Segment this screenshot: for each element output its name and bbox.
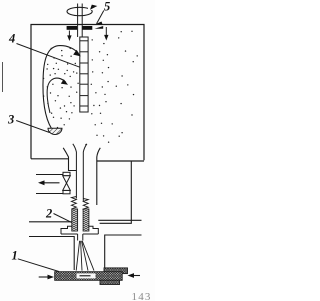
svg-text:3: 3 <box>7 113 14 127</box>
gas arrow left <box>67 31 71 42</box>
circulation arrow outer <box>43 46 78 129</box>
circulation arrow inner <box>47 78 66 113</box>
leader 5 <box>97 11 104 24</box>
chamber vessel walls <box>31 25 144 162</box>
disc arrow right <box>128 273 141 278</box>
svg-text:143: 143 <box>132 291 152 301</box>
disc window dash <box>80 275 91 276</box>
particle dots <box>43 31 138 146</box>
right duct <box>100 161 132 223</box>
svg-text:5: 5 <box>104 0 110 14</box>
leader 4 <box>17 44 80 68</box>
target disc 1 upper edge <box>104 268 128 274</box>
nozzle bracket <box>61 226 98 240</box>
target disc 1 lower edge <box>100 280 120 284</box>
crucible cup 3 <box>48 128 62 134</box>
seal bar right <box>82 26 92 30</box>
screw conveyor 4 (ladder) <box>80 37 88 112</box>
leader 3 <box>16 121 49 133</box>
spray jet <box>76 241 94 271</box>
valve body <box>63 172 71 193</box>
heater hatched walls 2 <box>72 209 78 231</box>
leader 1 <box>18 259 59 272</box>
target disc 1 main <box>55 272 123 281</box>
seal bar far right (5) <box>95 26 104 29</box>
disc arrow left <box>39 275 54 280</box>
svg-text:4: 4 <box>8 32 15 46</box>
page edge mark left <box>2 62 4 92</box>
valve pipe walls <box>36 175 63 194</box>
bellows right <box>83 199 88 211</box>
disc clear window <box>77 273 96 278</box>
svg-text:1: 1 <box>12 249 18 263</box>
shelves <box>29 220 142 270</box>
rotation arrow <box>67 7 92 15</box>
outer casing flare right <box>97 148 101 205</box>
flow arrow left out <box>38 180 60 185</box>
inner tube flare left <box>73 144 77 199</box>
seal bar left <box>67 26 78 30</box>
inner tube flare right <box>83 144 87 201</box>
bellows left <box>71 197 76 209</box>
shaft 5 top <box>78 4 83 38</box>
gas arrow right <box>104 27 108 41</box>
leader 2 <box>54 214 72 223</box>
outer casing flare left <box>63 148 76 171</box>
svg-text:2: 2 <box>45 206 52 220</box>
